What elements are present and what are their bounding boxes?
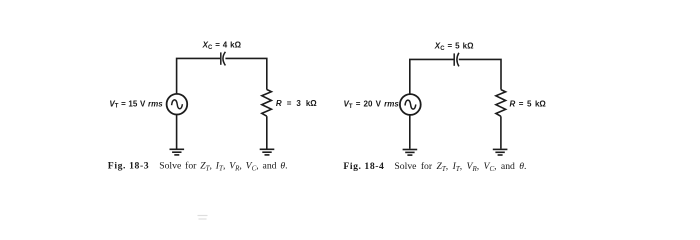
svg-text:R = 3 kΩ: R = 3 kΩ bbox=[276, 99, 317, 108]
capacitor XC (Fig.18-4) bbox=[454, 53, 459, 67]
wire: capacitor to resistor (Fig.18-4 top-right corner) bbox=[459, 59, 501, 89]
svg-text:Fig. 18-4: Fig. 18-4 bbox=[343, 161, 384, 172]
svg-text:Solve for ZT, IT, VR, VC, and: Solve for ZT, IT, VR, VC, and θ. bbox=[394, 161, 526, 173]
ground under resistor (Fig.18-3) bbox=[260, 149, 275, 155]
AC source VT = 15 V rms (Fig.18-3) bbox=[167, 94, 188, 115]
wire: left circuit, source up to capacitor (top-left corner) bbox=[177, 58, 221, 94]
resistor R = 3 kOhm (Fig.18-3) bbox=[262, 90, 272, 117]
wire: source to ground (Fig.18-4) bbox=[409, 115, 411, 149]
wire: resistor to ground (Fig.18-4) bbox=[500, 116, 502, 148]
AC source VT = 20 V rms (Fig.18-4) bbox=[400, 94, 421, 115]
ground under source (Fig.18-3) bbox=[170, 149, 185, 155]
svg-text:XC = 5 kΩ: XC = 5 kΩ bbox=[434, 42, 474, 52]
svg-text:XC = 4 kΩ: XC = 4 kΩ bbox=[202, 41, 242, 51]
capacitor XC (Fig.18-3) bbox=[221, 52, 226, 66]
wire: resistor to ground (Fig.18-3) bbox=[266, 116, 268, 148]
svg-text:Solve for ZT, IT, VR, VC, and: Solve for ZT, IT, VR, VC, and θ. bbox=[159, 161, 287, 173]
svg-text:VT = 20 V rms: VT = 20 V rms bbox=[344, 100, 400, 110]
wire: right circuit, source up to capacitor (top-left corner) bbox=[410, 59, 454, 94]
svg-text:VT = 15 V rms: VT = 15 V rms bbox=[109, 99, 163, 109]
ground under source (Fig.18-4) bbox=[403, 150, 418, 156]
svg-text:Fig. 18-3: Fig. 18-3 bbox=[108, 161, 149, 172]
wire: source to ground (Fig.18-3) bbox=[176, 114, 178, 148]
svg-text:R = 5 kΩ: R = 5 kΩ bbox=[510, 99, 547, 108]
faint scan smudge bottom bbox=[198, 216, 208, 220]
ground under resistor (Fig.18-4) bbox=[493, 149, 508, 155]
wire: capacitor to resistor (top-right corner) bbox=[225, 58, 266, 89]
resistor R = 5 kOhm (Fig.18-4) bbox=[496, 90, 506, 117]
